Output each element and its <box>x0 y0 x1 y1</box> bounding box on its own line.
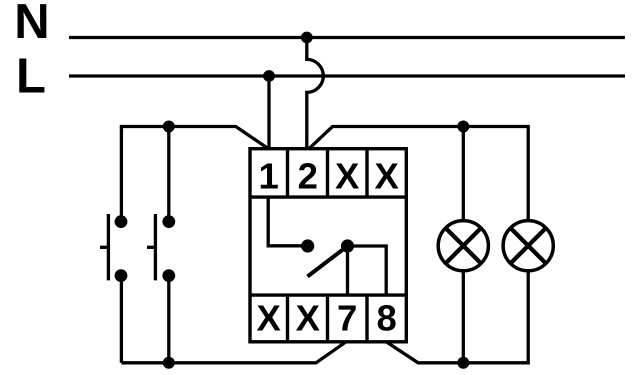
lamp E1 <box>438 221 488 271</box>
contact dot right <box>341 239 354 252</box>
junction dot on L line <box>263 70 275 82</box>
wire button S2 top drop <box>167 127 170 222</box>
wire button S1 return <box>120 276 123 363</box>
terminal dividers top row <box>288 149 368 197</box>
svg-text:X: X <box>375 156 400 197</box>
wire bottom-left run to terminal 7 <box>121 342 346 363</box>
wire terminal 1 to contact <box>268 197 308 246</box>
push button S2 <box>147 214 175 282</box>
push button S1 <box>100 214 127 282</box>
junction dot on N line <box>301 32 313 44</box>
wire contact to terminal 7 <box>346 246 349 295</box>
svg-text:X: X <box>296 298 321 339</box>
junction dot buttons top <box>163 121 175 133</box>
svg-text:7: 7 <box>337 298 357 339</box>
junction dot lamps top <box>457 121 469 133</box>
wire lamp E1 bottom drop <box>462 271 465 363</box>
svg-text:1: 1 <box>259 156 279 197</box>
contact dot left <box>301 239 314 252</box>
wire lamp E1 top drop <box>462 127 465 221</box>
wire N line <box>69 36 625 39</box>
wire terminal 8 to lamps bottom run <box>386 271 528 363</box>
svg-text:2: 2 <box>298 156 318 197</box>
svg-text:X: X <box>257 298 282 339</box>
svg-text:8: 8 <box>377 298 397 339</box>
wire terminal 2 to lamps top run <box>309 127 528 221</box>
junction dot buttons bottom <box>163 357 175 369</box>
relay module outline <box>250 149 406 342</box>
lamp E2 <box>503 221 553 271</box>
wire L to terminal 1 <box>267 76 270 149</box>
svg-text:L: L <box>16 50 46 104</box>
wire button S2 return <box>167 276 170 363</box>
wire buttons top run to terminal 1 <box>121 127 268 222</box>
wire contact to terminal 8 <box>348 246 387 295</box>
svg-text:X: X <box>335 156 360 197</box>
terminal dividers bottom row <box>288 295 368 342</box>
wire L line <box>69 74 625 77</box>
switch arm (open contact) <box>308 246 348 277</box>
svg-text:N: N <box>14 0 49 49</box>
junction dot lamps bottom <box>457 357 469 369</box>
wire N to terminal 2 (hops over L line) <box>307 38 324 149</box>
